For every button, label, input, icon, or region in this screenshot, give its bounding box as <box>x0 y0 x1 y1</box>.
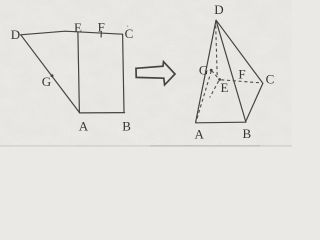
right figure: point E dot <box>218 78 221 81</box>
svg-text:A: A <box>79 118 89 133</box>
right figure: point G dot <box>210 69 213 72</box>
right figure: hidden edge E-A (dashed) <box>210 81 219 98</box>
left figure: top edge D-C <box>21 31 123 35</box>
svg-text:G: G <box>199 63 208 78</box>
svg-text:A: A <box>195 127 205 142</box>
bottom scan line <box>0 145 292 146</box>
right figure: base edge A-B <box>196 121 246 124</box>
svg-text:D: D <box>11 27 20 42</box>
left figure: right side C-B <box>123 34 124 112</box>
left figure: slant edge D-A <box>21 35 79 112</box>
right figure: edge D-C <box>216 20 263 83</box>
svg-text:B: B <box>242 126 251 141</box>
svg-text:C: C <box>266 71 275 86</box>
right figure: segment G-E (dashed) <box>212 71 219 79</box>
left figure: vertical E-A <box>78 32 80 112</box>
svg-text:B: B <box>122 118 131 133</box>
svg-text:F: F <box>98 20 105 35</box>
right figure: edge D-B <box>216 20 246 121</box>
left figure: tick at F <box>100 31 102 37</box>
right figure: hidden edge D-E (dashed) <box>216 26 218 77</box>
svg-text:E: E <box>221 80 229 95</box>
right figure: edge D-A <box>196 20 216 122</box>
arrow (hollow, pointing right) <box>136 62 175 85</box>
left figure: point G dot <box>51 74 54 77</box>
svg-text:D: D <box>214 2 223 17</box>
speck above left C <box>127 26 128 27</box>
right figure: edge B-C <box>246 83 263 121</box>
svg-text:G: G <box>42 74 51 89</box>
paper background <box>0 0 292 147</box>
svg-text:F: F <box>238 66 245 81</box>
svg-text:C: C <box>125 26 134 41</box>
right figure: segment G-A (dashed) <box>196 71 211 121</box>
right figure: hidden edge E-C (dashed) <box>221 80 261 83</box>
left figure: bottom edge A-B <box>79 112 124 114</box>
svg-text:E: E <box>74 20 82 35</box>
